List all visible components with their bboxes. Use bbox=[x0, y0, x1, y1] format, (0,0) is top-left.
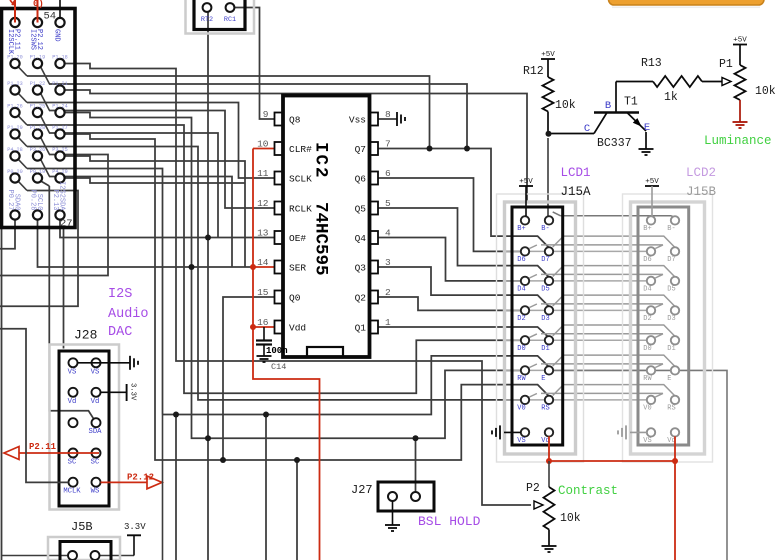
svg-text:P2.11: P2.11 bbox=[13, 29, 21, 50]
svg-text:D3: D3 bbox=[541, 315, 549, 323]
svg-text:VS: VS bbox=[91, 368, 100, 376]
svg-text:2: 2 bbox=[385, 287, 391, 298]
svg-text:Luminance: Luminance bbox=[704, 134, 772, 148]
svg-text:Q3: Q3 bbox=[355, 263, 367, 274]
svg-text:8: 8 bbox=[385, 109, 391, 120]
svg-text:13: 13 bbox=[257, 228, 269, 239]
svg-text:11: 11 bbox=[257, 168, 269, 179]
svg-text:P1.23: P1.23 bbox=[7, 81, 23, 87]
svg-text:12: 12 bbox=[257, 198, 269, 209]
svg-text:27: 27 bbox=[60, 218, 73, 230]
svg-text:Q8: Q8 bbox=[289, 115, 301, 126]
svg-text:Q6: Q6 bbox=[355, 174, 367, 185]
svg-text:P2.12: P2.12 bbox=[127, 473, 154, 483]
svg-text:SDA0: SDA0 bbox=[13, 194, 21, 211]
svg-text:1: 1 bbox=[385, 317, 391, 328]
svg-text:B+: B+ bbox=[517, 225, 525, 233]
svg-text:MCLK: MCLK bbox=[63, 488, 81, 496]
svg-text:5: 5 bbox=[385, 198, 391, 209]
svg-text:3.3V: 3.3V bbox=[124, 522, 146, 532]
svg-text:Q2: Q2 bbox=[355, 293, 367, 304]
svg-text:10k: 10k bbox=[560, 512, 581, 525]
svg-text:GND: GND bbox=[53, 29, 61, 42]
svg-text:Q1: Q1 bbox=[355, 323, 367, 334]
svg-text:P1.19: P1.19 bbox=[30, 55, 46, 61]
svg-text:B-: B- bbox=[541, 225, 549, 233]
svg-text:BC337: BC337 bbox=[597, 137, 632, 150]
svg-text:V0: V0 bbox=[643, 404, 651, 412]
svg-text:P1.18: P1.18 bbox=[52, 55, 68, 61]
svg-text:OE#: OE# bbox=[289, 233, 306, 244]
svg-text:D4: D4 bbox=[643, 285, 651, 293]
svg-text:+5V: +5V bbox=[733, 37, 747, 45]
svg-text:R13: R13 bbox=[641, 57, 662, 70]
svg-text:6: 6 bbox=[385, 168, 391, 179]
svg-text:D0: D0 bbox=[517, 345, 525, 353]
svg-text:J27: J27 bbox=[351, 483, 373, 497]
svg-text:10k: 10k bbox=[755, 85, 776, 98]
svg-text:SDA: SDA bbox=[89, 428, 103, 436]
svg-text:SCLK: SCLK bbox=[289, 174, 312, 185]
svg-text:9: 9 bbox=[263, 109, 269, 120]
svg-text:RCLK: RCLK bbox=[289, 204, 312, 215]
svg-text:T1: T1 bbox=[624, 96, 638, 109]
svg-text:P1.25: P1.25 bbox=[30, 104, 46, 110]
svg-text:P1.26: P1.26 bbox=[7, 104, 23, 110]
svg-text:Contrast: Contrast bbox=[558, 484, 618, 498]
svg-text:P1.20: P1.20 bbox=[7, 55, 23, 61]
svg-text:P4.29: P4.29 bbox=[52, 169, 68, 175]
svg-text:P1.29: P1.29 bbox=[7, 125, 23, 131]
svg-text:CLR#: CLR# bbox=[289, 144, 312, 155]
svg-text:C14: C14 bbox=[271, 362, 286, 372]
svg-text:100n: 100n bbox=[266, 346, 288, 356]
svg-text:Q0: Q0 bbox=[289, 293, 301, 304]
svg-text:P4.28: P4.28 bbox=[7, 147, 23, 153]
svg-text:SC: SC bbox=[68, 459, 77, 467]
svg-text:10: 10 bbox=[257, 139, 269, 150]
svg-text:I2S: I2S bbox=[108, 287, 132, 302]
svg-text:C: C bbox=[584, 123, 590, 135]
svg-text:LCD1: LCD1 bbox=[561, 166, 591, 180]
svg-text:1k: 1k bbox=[664, 91, 678, 104]
svg-text:D3: D3 bbox=[667, 315, 675, 323]
svg-text:P3.25: P3.25 bbox=[52, 147, 68, 153]
svg-text:SCL0: SCL0 bbox=[35, 194, 43, 211]
svg-text:VS: VS bbox=[517, 437, 525, 445]
svg-text:3: 3 bbox=[385, 257, 391, 268]
svg-text:D6: D6 bbox=[517, 256, 525, 264]
svg-text:P2: P2 bbox=[526, 482, 540, 495]
svg-text:+5V: +5V bbox=[645, 178, 659, 186]
svg-text:Vd: Vd bbox=[68, 398, 77, 406]
svg-text:Q5: Q5 bbox=[355, 204, 367, 215]
svg-text:P1.22: P1.22 bbox=[30, 81, 46, 87]
svg-text:D7: D7 bbox=[541, 256, 549, 264]
svg-text:RC1: RC1 bbox=[224, 16, 236, 24]
svg-text:P1.24: P1.24 bbox=[52, 104, 68, 110]
svg-text:10k: 10k bbox=[555, 99, 576, 112]
svg-text:B-: B- bbox=[667, 225, 675, 233]
svg-text:J15B: J15B bbox=[686, 185, 717, 199]
svg-text:BSL HOLD: BSL HOLD bbox=[418, 514, 481, 529]
svg-text:VS: VS bbox=[643, 437, 651, 445]
svg-text:WS: WS bbox=[91, 488, 100, 496]
svg-text:Vd: Vd bbox=[91, 398, 100, 406]
svg-text:P0.19: P0.19 bbox=[30, 169, 46, 175]
svg-text:V0: V0 bbox=[517, 404, 525, 412]
svg-text:D1: D1 bbox=[667, 345, 675, 353]
svg-text:SC: SC bbox=[91, 459, 100, 467]
svg-text:7: 7 bbox=[385, 139, 391, 150]
svg-text:J5B: J5B bbox=[71, 520, 93, 534]
svg-text:J15A: J15A bbox=[561, 185, 592, 199]
svg-text:54: 54 bbox=[44, 11, 57, 23]
svg-text:Vdd: Vdd bbox=[289, 323, 306, 334]
svg-text:P3.26: P3.26 bbox=[30, 147, 46, 153]
svg-text:Audio: Audio bbox=[108, 307, 149, 322]
svg-text:RW: RW bbox=[517, 375, 526, 383]
svg-text:P2.11: P2.11 bbox=[29, 442, 57, 452]
svg-text:16: 16 bbox=[257, 317, 269, 328]
svg-text:P1: P1 bbox=[719, 58, 733, 71]
svg-text:+5V: +5V bbox=[519, 178, 533, 186]
svg-text:P1.21: P1.21 bbox=[52, 81, 68, 87]
svg-text:D5: D5 bbox=[667, 285, 675, 293]
svg-text:RT2: RT2 bbox=[201, 16, 213, 24]
svg-text:RW: RW bbox=[643, 375, 652, 383]
svg-text:Q7: Q7 bbox=[355, 144, 366, 155]
svg-text:E: E bbox=[644, 122, 650, 134]
svg-text:I2S2SDA: I2S2SDA bbox=[58, 181, 66, 211]
svg-text:VS: VS bbox=[68, 368, 77, 376]
svg-text:Q4: Q4 bbox=[355, 233, 367, 244]
svg-text:B+: B+ bbox=[643, 225, 651, 233]
svg-text:14: 14 bbox=[257, 257, 269, 268]
svg-text:3.3V: 3.3V bbox=[129, 383, 137, 401]
svg-text:P0.20: P0.20 bbox=[7, 169, 23, 175]
svg-text:D4: D4 bbox=[517, 285, 525, 293]
svg-text:D7: D7 bbox=[667, 256, 675, 264]
svg-text:LCD2: LCD2 bbox=[686, 166, 716, 180]
svg-text:D0: D0 bbox=[643, 345, 651, 353]
svg-text:D1: D1 bbox=[541, 345, 549, 353]
svg-text:R12: R12 bbox=[523, 65, 544, 78]
svg-text:Vss: Vss bbox=[349, 115, 366, 126]
svg-text:P1.28: P1.28 bbox=[30, 125, 46, 131]
svg-text:0): 0) bbox=[33, 0, 44, 9]
svg-text:D6: D6 bbox=[643, 256, 651, 264]
svg-text:D2: D2 bbox=[643, 315, 651, 323]
svg-text:B: B bbox=[605, 100, 611, 112]
svg-text:+5V: +5V bbox=[541, 51, 555, 59]
svg-text:RS: RS bbox=[667, 404, 675, 412]
svg-text:J28: J28 bbox=[74, 328, 97, 343]
svg-text:DAC: DAC bbox=[108, 325, 132, 340]
svg-text:E: E bbox=[667, 375, 671, 383]
svg-text:SER: SER bbox=[289, 263, 306, 274]
svg-text:E: E bbox=[541, 375, 545, 383]
svg-text:D5: D5 bbox=[541, 285, 549, 293]
svg-text:P2.12: P2.12 bbox=[35, 29, 43, 50]
svg-text:15: 15 bbox=[257, 287, 269, 298]
svg-text:IC2: IC2 bbox=[311, 142, 331, 180]
svg-text:74HC595: 74HC595 bbox=[311, 202, 331, 276]
svg-text:4: 4 bbox=[385, 228, 391, 239]
svg-text:P1.27: P1.27 bbox=[52, 125, 68, 131]
svg-text:D2: D2 bbox=[517, 315, 525, 323]
svg-text:RS: RS bbox=[541, 404, 549, 412]
